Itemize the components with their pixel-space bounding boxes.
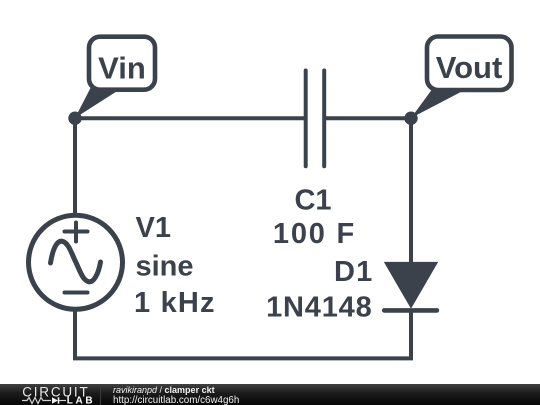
node Vin junction dot <box>68 112 81 125</box>
wire left vertical lower (V1 bottom pin to bottom rail) <box>73 309 77 360</box>
svg-text:sine: sine <box>136 251 194 283</box>
wire top-left (Vin node to C1 left plate) <box>75 116 306 120</box>
svg-text:Vin: Vin <box>98 51 146 86</box>
voltage source V1 <box>29 215 123 309</box>
wire left vertical upper (Vin node to V1 top pin) <box>73 118 77 217</box>
svg-text:http://circuitlab.com/c6w4g6h: http://circuitlab.com/c6w4g6h <box>113 395 239 405</box>
diode D1 <box>384 262 438 311</box>
node Vout junction dot <box>404 112 417 125</box>
svg-text:Vout: Vout <box>436 50 503 85</box>
net flag Vout <box>411 37 512 119</box>
wire bottom rail <box>73 356 413 360</box>
footer bar <box>0 384 540 405</box>
svg-text:LAB: LAB <box>67 396 95 405</box>
footer divider <box>100 384 102 405</box>
wire right vertical upper (Vout node to D1 anode) <box>409 118 413 264</box>
svg-text:1 kHz: 1 kHz <box>134 287 216 319</box>
wire top-right (C1 right plate to Vout node) <box>324 116 411 120</box>
capacitor C1 <box>306 71 325 167</box>
svg-text:D1: D1 <box>334 256 373 288</box>
net flag Vin <box>75 37 155 118</box>
svg-text:C1: C1 <box>294 184 331 216</box>
svg-text:1N4148: 1N4148 <box>266 292 372 324</box>
svg-text:V1: V1 <box>136 212 171 244</box>
CircuitLab logo <box>22 384 95 405</box>
svg-text:100 F: 100 F <box>273 218 356 250</box>
wire right vertical lower (D1 cathode to bottom rail) <box>409 309 413 360</box>
svg-text:ravikiranpd / clamper ckt: ravikiranpd / clamper ckt <box>113 385 215 395</box>
